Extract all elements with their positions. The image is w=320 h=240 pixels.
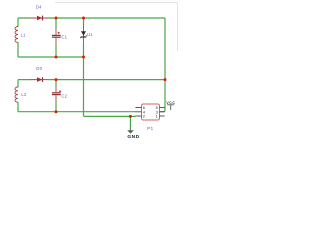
frame right line (177, 3, 179, 52)
capacitor C1 (52, 29, 61, 45)
svg-text:C1: C1 (61, 35, 67, 40)
wire: circuit2 top rail (18, 79, 165, 81)
wire: right vertical to pin5/VCC (160, 18, 165, 112)
junction dot (C2 bottom) (55, 110, 58, 113)
connector P1 left pin stubs (135, 108, 141, 117)
VCC symbol (167, 105, 174, 110)
zener diode U1 (80, 24, 86, 45)
wire: circuit1 bottom rail (18, 56, 84, 58)
diode D4 (31, 16, 49, 21)
wire: circuit2 bottom rail to pin4 (18, 111, 136, 113)
wire: circuit1 left vertical (L1 column) (17, 18, 19, 57)
diode D0 (31, 77, 49, 82)
wire: circuit1 top rail (18, 17, 165, 19)
junction dot (GND stub on pin2 wire) (129, 115, 132, 118)
wire: C1 column (55, 18, 57, 57)
svg-text:D4: D4 (36, 5, 42, 10)
capacitor C2 (52, 86, 61, 102)
wire: C2 column (55, 80, 57, 112)
svg-text:P1: P1 (147, 126, 153, 131)
connector P1 right pin stubs (160, 108, 165, 117)
connector P1 box (142, 104, 160, 120)
junction dot (right vertical / circuit2 top rail) (164, 78, 167, 81)
svg-text:L1: L1 (21, 33, 27, 38)
wire: zener U1 column (83, 18, 85, 57)
junction dot (C2 top) (55, 78, 58, 81)
inductor L2 (15, 87, 18, 102)
junction dot (zener bottom) (82, 56, 85, 59)
svg-text:L2: L2 (21, 92, 27, 97)
junction dot (C1 bottom) (55, 56, 58, 59)
GND symbol arrow (127, 129, 134, 134)
svg-text:D0: D0 (36, 66, 42, 71)
wire: vertical from circuit1 bottom down to pin2 row (84, 57, 136, 116)
svg-text:C2: C2 (61, 93, 67, 98)
wire: GND stub down from pin2 wire (129, 116, 131, 129)
svg-text:U1: U1 (87, 32, 93, 37)
wire: circuit2 left vertical (L2 column) (17, 80, 19, 112)
svg-text:GND: GND (127, 134, 139, 140)
svg-text:VCC: VCC (166, 101, 175, 105)
frame top line (55, 2, 178, 4)
inductor L1 (15, 27, 18, 43)
junction dot (C1 top) (55, 17, 58, 20)
junction dot (zener top) (82, 17, 85, 20)
